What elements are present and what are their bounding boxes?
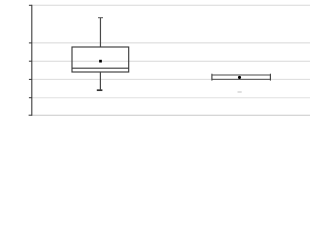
box1 rectangle (72, 47, 129, 72)
box1 mean marker (99, 60, 102, 63)
box2 right edge bar (269, 74, 271, 81)
tick y5 (29, 97, 32, 99)
tick y6 (29, 114, 32, 116)
tick y2 (29, 42, 32, 44)
box2 outlier dash (238, 91, 242, 93)
gridline y6 bottom (32, 114, 310, 116)
box2 rectangle (212, 75, 271, 79)
box2 mean marker (238, 76, 241, 79)
box1 median line (72, 67, 129, 69)
y-axis line (31, 5, 33, 116)
box1 lower whisker cap (97, 89, 103, 91)
box1 lower whisker stem (99, 72, 101, 89)
gridline y3 (32, 60, 310, 62)
tick y3 (29, 60, 32, 62)
tick y1 (29, 4, 32, 6)
gridline y4 (32, 78, 310, 80)
box1 upper whisker stem (99, 18, 101, 47)
box2 left edge bar (211, 74, 213, 81)
gridline y1 (32, 4, 310, 6)
tick y4 (29, 78, 32, 80)
gridline y5 (32, 97, 310, 99)
box1 upper whisker cap (98, 17, 103, 19)
gridline y2 (32, 42, 310, 44)
